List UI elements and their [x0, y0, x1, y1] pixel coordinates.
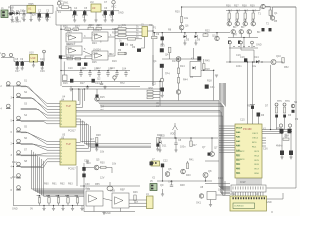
resistor R21 left — [152, 36, 158, 38]
diode D14 — [256, 60, 259, 63]
crystal Y2 — [107, 186, 113, 191]
resistor R56 — [283, 138, 289, 140]
svg-text:100n: 100n — [180, 146, 186, 149]
svg-text:RC1: RC1 — [252, 147, 257, 149]
wire regulator output — [30, 12, 32, 15]
test point TP6 — [283, 103, 286, 106]
capacitor C27 — [92, 79, 95, 83]
resistor R7 — [118, 31, 126, 34]
test point antenna — [173, 126, 178, 131]
capacitor C26 — [70, 79, 73, 83]
svg-text:RN1: RN1 — [149, 87, 155, 90]
svg-text:104: 104 — [94, 68, 99, 71]
wire fuse to rail — [59, 6, 62, 8]
transistor Q2 — [235, 22, 239, 26]
wire G bottom rail — [84, 211, 135, 213]
wire H rail — [226, 61, 271, 63]
svg-text:TLP: TLP — [66, 104, 71, 108]
wire cap row rail — [61, 70, 130, 72]
svg-text:C15: C15 — [240, 119, 245, 122]
op-amp U2A — [66, 33, 82, 42]
test point TP8 — [288, 124, 291, 127]
diode D7 — [238, 41, 241, 44]
capacitor C33 — [174, 143, 177, 144]
diode D1 — [12, 12, 15, 15]
transistor Q18 — [203, 173, 208, 178]
resistor R63 bottom — [67, 196, 69, 198]
header JP1 — [231, 185, 266, 192]
transistor Q17 — [181, 169, 186, 174]
optocoupler U5 — [60, 139, 76, 165]
svg-text:100n: 100n — [236, 65, 242, 68]
svg-text:R61: R61 — [52, 183, 57, 186]
transistor Q19 — [199, 194, 203, 198]
svg-text:R27: R27 — [192, 144, 197, 147]
svg-text:GND: GND — [266, 201, 272, 204]
connector J6 — [230, 196, 267, 211]
svg-text:D11: D11 — [162, 145, 167, 148]
svg-text:R16: R16 — [63, 82, 68, 85]
wire bundle verticals from top — [219, 83, 221, 101]
svg-text:Q10: Q10 — [276, 55, 281, 58]
ground C53 — [290, 155, 292, 157]
push button row S1 — [7, 82, 11, 86]
wire U4 pin 8 down — [76, 125, 151, 146]
capacitor C52 — [280, 151, 284, 156]
resistor R35 — [269, 10, 271, 16]
wire left bus op-amp section — [60, 25, 62, 86]
ground PSU-B 4 — [104, 15, 106, 20]
resistor R8B — [128, 38, 136, 41]
svg-text:4k7: 4k7 — [236, 10, 241, 13]
svg-text:MCLR: MCLR — [236, 128, 243, 130]
svg-text:VCC: VCC — [111, 6, 116, 9]
wire RN1 to bus — [153, 90, 160, 92]
test point TP1 — [57, 2, 60, 5]
connector J1 power input — [1, 10, 8, 18]
transistor Q8 top right — [261, 4, 265, 8]
ground bottom 0 — [43, 206, 45, 209]
svg-text:BC: BC — [241, 26, 245, 29]
LED D11 — [159, 141, 162, 144]
capacitor C5 — [83, 11, 86, 15]
resistor R6 — [118, 27, 126, 30]
svg-text:U3: U3 — [92, 6, 96, 10]
wire bundle pin stubs to MCU — [219, 125, 235, 127]
svg-text:10u: 10u — [102, 14, 107, 17]
wire bottom rail — [13, 205, 84, 207]
capacitor C21 row — [89, 71, 91, 73]
wire right vertical PSU-A — [52, 5, 54, 13]
ground PSU-A 4 — [30, 16, 32, 20]
resistor R11 mid — [75, 58, 81, 60]
svg-text:R49: R49 — [218, 177, 223, 180]
connector dashes — [233, 46, 255, 48]
op-amp U2D — [92, 51, 108, 60]
resistor R62 bottom — [58, 196, 60, 198]
svg-text:R20: R20 — [175, 11, 180, 14]
wire MCU bottom pins — [236, 178, 238, 185]
wire E row — [201, 69, 214, 71]
wire fan verticals to bottom — [32, 150, 85, 189]
fuse F1 — [62, 6, 69, 9]
resistor R31 base — [236, 13, 238, 19]
wire MCU right pins — [262, 137, 266, 139]
wire U4 pin 3 long — [76, 110, 230, 192]
op-amp U2C — [66, 46, 82, 55]
wire H2 right vertical — [224, 181, 226, 195]
ground PSU-B 1 — [74, 15, 76, 20]
wire H2 — [162, 167, 164, 181]
svg-text:D13: D13 — [12, 176, 17, 179]
diode D5 — [184, 35, 187, 38]
svg-text:PC817: PC817 — [68, 130, 76, 133]
svg-text:4k7: 4k7 — [244, 10, 249, 13]
svg-text:D14: D14 — [254, 56, 259, 59]
push button row S9 — [17, 174, 21, 178]
op-amp U2B — [92, 32, 108, 41]
svg-text:R30: R30 — [100, 162, 105, 165]
wire crystal verticals — [281, 134, 283, 151]
svg-text:IC1D: IC1D — [92, 53, 98, 56]
transistor Q1 — [227, 22, 231, 26]
transistor Q10 — [179, 25, 184, 30]
push button row S6 — [17, 139, 21, 143]
capacitor C32 — [160, 88, 164, 92]
wire main rail PSU-B — [57, 10, 119, 12]
test point TP2 — [112, 1, 115, 4]
svg-text:100n: 100n — [82, 14, 88, 17]
wire U4 pin 5 long — [76, 116, 230, 195]
svg-text:U1: U1 — [28, 7, 32, 11]
capacitor C46 — [244, 58, 247, 62]
push button row S5 — [17, 128, 21, 132]
wire junction verticals to opto — [71, 89, 73, 101]
wire G left vertical — [83, 163, 85, 186]
svg-text:R11: R11 — [70, 55, 75, 58]
svg-text:R23: R23 — [92, 42, 97, 45]
resistor R9 — [118, 52, 126, 55]
svg-text:U10: U10 — [31, 56, 36, 60]
svg-text:IC2: IC2 — [152, 83, 157, 86]
ground C52 — [281, 155, 283, 157]
capacitor C51 — [288, 129, 292, 134]
ground E small — [215, 75, 218, 77]
capacitor C3 — [46, 14, 49, 18]
svg-text:470u: 470u — [72, 14, 78, 17]
wire left E column — [161, 68, 163, 95]
resistor R32 base — [244, 13, 246, 19]
capacitor C25 row — [125, 71, 127, 73]
svg-text:PC817: PC817 — [68, 168, 76, 171]
wire G left vertical 2 — [76, 166, 78, 186]
resistor R24 — [177, 78, 179, 84]
transistor emitter stub 1 — [229, 41, 232, 44]
ground R28 — [96, 147, 98, 149]
wire U4 aux down 3 — [91, 126, 152, 147]
connector J4 — [147, 196, 154, 209]
svg-text:GND: GND — [105, 212, 111, 215]
svg-text:R25: R25 — [92, 61, 97, 64]
svg-text:104: 104 — [122, 68, 127, 71]
svg-text:REF: REF — [120, 189, 125, 192]
svg-text:GND: GND — [12, 208, 18, 211]
svg-text:C25: C25 — [84, 160, 89, 163]
wire H2 rail — [157, 180, 212, 182]
svg-text:4k7: 4k7 — [90, 138, 95, 141]
ground H2 — [162, 189, 164, 194]
resistor R30 base — [228, 13, 230, 19]
capacitor C44 — [170, 185, 173, 186]
capacitor C19 — [41, 62, 44, 66]
resistor R28 pullup — [96, 138, 98, 144]
svg-text:out: out — [100, 109, 104, 112]
resistor R33 base — [252, 13, 254, 19]
capacitor C14 — [78, 63, 81, 66]
wire right vertical inner — [270, 65, 272, 130]
svg-text:0V: 0V — [30, 208, 33, 211]
svg-text:R22: R22 — [205, 30, 210, 33]
wire vertical from top rail — [10, 5, 12, 13]
capacitor C10 — [161, 37, 164, 41]
svg-text:R22: R22 — [66, 43, 71, 46]
svg-text:TP2: TP2 — [120, 82, 125, 85]
svg-text:ICSP: ICSP — [240, 181, 246, 184]
capacitor C22 row — [98, 71, 100, 73]
wire left column bus — [12, 86, 14, 206]
capacitor C30B — [160, 64, 164, 68]
wire bundle lower horizontals — [205, 160, 219, 162]
wire U4 right pin 1 up — [76, 89, 80, 105]
wire U2B out — [108, 36, 115, 38]
capacitor C2 — [38, 14, 41, 18]
wire vertical x160 — [159, 81, 161, 106]
transistor Q6 — [239, 30, 243, 34]
wire cluster top rail — [226, 9, 260, 11]
svg-text:OSC1: OSC1 — [252, 133, 259, 135]
svg-text:IC1B: IC1B — [92, 34, 98, 37]
svg-text:R44: R44 — [183, 79, 188, 82]
svg-text:U6B: U6B — [110, 190, 115, 193]
wire lower rail 2 — [62, 85, 140, 87]
ground bottom 3 — [72, 206, 74, 209]
svg-text:R17: R17 — [80, 82, 85, 85]
ground lower rail — [87, 85, 89, 88]
capacitor C24 row — [116, 71, 118, 73]
svg-text:C31: C31 — [210, 86, 215, 89]
svg-text:C30: C30 — [85, 183, 90, 186]
resistor R10 mid — [67, 58, 73, 60]
svg-text:C44: C44 — [168, 181, 173, 184]
svg-text:R28: R28 — [96, 134, 101, 137]
push button row S4 — [17, 116, 21, 120]
svg-text:R46: R46 — [133, 191, 138, 194]
svg-text:RC0: RC0 — [252, 142, 257, 144]
ground D section 2 — [195, 40, 197, 44]
ground PSU-A 1 — [11, 16, 13, 20]
resistor R60 bottom — [39, 196, 41, 198]
ground J7 — [86, 161, 89, 163]
svg-text:100n: 100n — [45, 16, 51, 19]
ground U8 — [210, 200, 212, 205]
wire array lower rail — [229, 47, 258, 49]
wire PSU-C rail — [13, 58, 15, 62]
diode D2 — [16, 12, 19, 15]
resistor R23 — [177, 68, 179, 74]
resistor R64 bottom — [77, 196, 79, 198]
ground PSU-A 6 — [46, 16, 48, 20]
ground C10 — [161, 40, 163, 44]
diode D8 — [120, 43, 124, 46]
wire right edge bottom — [267, 187, 297, 189]
push button row S10 — [17, 186, 21, 190]
svg-text:RC3: RC3 — [240, 159, 245, 161]
svg-text:R45: R45 — [205, 60, 210, 63]
svg-text:R37: R37 — [234, 5, 239, 8]
svg-text:IC1C: IC1C — [66, 48, 72, 51]
resistor R22 — [203, 34, 208, 37]
svg-text:C22: C22 — [163, 160, 168, 163]
svg-text:CONN 20: CONN 20 — [234, 206, 244, 208]
resistor R52 — [282, 58, 284, 64]
wire opamp top rail — [61, 28, 120, 30]
svg-text:RC7: RC7 — [255, 169, 260, 171]
svg-text:R60: R60 — [44, 183, 49, 186]
svg-text:4MHz: 4MHz — [276, 145, 283, 148]
svg-text:an1: an1 — [118, 25, 123, 28]
resistor network RN1 — [147, 90, 153, 92]
svg-text:12V: 12V — [100, 177, 105, 180]
wire right edge vertical — [295, 7, 297, 188]
svg-text:TP1: TP1 — [58, 0, 63, 3]
svg-text:R48: R48 — [180, 184, 185, 187]
svg-text:PIC16F: PIC16F — [243, 127, 252, 131]
svg-text:R32: R32 — [112, 32, 117, 35]
connector J7 small — [151, 161, 160, 166]
wire fan to U5 — [21, 132, 57, 142]
resistor R3 — [88, 27, 94, 29]
svg-text:IC1A: IC1A — [66, 35, 72, 38]
ground bottom 1 — [53, 206, 55, 209]
svg-text:D12: D12 — [12, 161, 17, 164]
svg-text:TLP: TLP — [66, 142, 71, 146]
connector J6 pin ticks — [233, 197, 266, 199]
wire G rail — [80, 185, 140, 187]
regulator U3 78L05 — [91, 4, 101, 12]
svg-text:R52: R52 — [284, 66, 289, 69]
wire E vertical — [152, 55, 154, 86]
resistor R26 — [203, 64, 205, 70]
test point TP3 — [113, 76, 116, 79]
resistor R27 — [190, 141, 192, 147]
capacitor C21 stray — [59, 55, 62, 58]
capacitor C53 — [289, 151, 293, 156]
resistor R8 — [118, 34, 126, 37]
comparator U7 — [112, 193, 129, 208]
svg-text:LM324: LM324 — [93, 29, 101, 32]
ground bottom 4 — [81, 206, 83, 209]
sensor S2 — [9, 53, 12, 56]
svg-text:104: 104 — [108, 68, 113, 71]
svg-text:22p: 22p — [276, 127, 281, 130]
diode D6 — [228, 41, 231, 44]
svg-text:BC: BC — [257, 31, 261, 34]
svg-text:PWR: PWR — [8, 7, 14, 10]
ground PSU-A 5 — [38, 16, 40, 20]
capacitor C41 — [82, 174, 85, 178]
svg-text:LM: LM — [90, 1, 93, 4]
svg-text:RC4: RC4 — [255, 155, 260, 157]
ground D section — [184, 40, 186, 44]
capacitor C30 — [160, 48, 164, 52]
svg-text:R36: R36 — [226, 5, 231, 8]
svg-text:R29: R29 — [157, 134, 162, 137]
capacitor C50 — [280, 129, 284, 134]
wire U4 right pin 2 up — [76, 89, 83, 107]
regulator U1 7805 — [27, 6, 36, 13]
wire main rail PSU-A — [8, 12, 53, 14]
svg-text:R18: R18 — [207, 80, 212, 83]
svg-text:OSC2: OSC2 — [252, 138, 259, 140]
capacitor C20 row — [80, 71, 82, 73]
capacitor C28 — [100, 83, 103, 84]
svg-text:104: 104 — [109, 14, 114, 17]
capacitor C43 — [150, 162, 153, 166]
ground PSU-B 2 — [84, 15, 86, 20]
capacitor C40 — [82, 167, 85, 171]
wire top-right vertical feed — [152, 25, 154, 86]
svg-text:LM324: LM324 — [93, 48, 101, 51]
resistor R29 pullup — [157, 138, 159, 144]
ground R29 — [157, 147, 159, 149]
optocoupler U4 — [60, 101, 76, 127]
diode D5B — [195, 35, 198, 38]
fuse F2 — [9, 12, 12, 15]
svg-text:R15: R15 — [100, 96, 105, 99]
svg-text:R38: R38 — [242, 5, 247, 8]
wire U5 right pin stubs — [76, 142, 81, 144]
svg-text:R29: R29 — [97, 24, 102, 27]
wire bundle horizontal group — [97, 101, 230, 187]
diode D10 — [193, 67, 196, 70]
svg-text:20M: 20M — [284, 135, 289, 138]
svg-text:C19: C19 — [40, 70, 45, 73]
capacitor C4 — [73, 11, 76, 15]
capacitor C15 — [84, 63, 87, 66]
wire sensor rail — [1, 57, 14, 59]
transistor emitter stub 3 — [251, 41, 254, 44]
capacitor C23 row — [107, 71, 109, 73]
ground TP3 — [104, 86, 106, 88]
wire header to connector pins — [232, 192, 234, 196]
push button row S7 — [17, 151, 21, 155]
svg-text:C10: C10 — [68, 67, 73, 70]
ground PSU-A 3 — [23, 16, 25, 20]
svg-text:BC: BC — [233, 26, 237, 29]
wire J6 right — [267, 193, 284, 199]
svg-text:R13: R13 — [172, 60, 177, 63]
ground PSU-B 5 — [111, 15, 113, 20]
svg-text:C16: C16 — [240, 56, 245, 59]
capacitor C13 right — [269, 28, 272, 31]
wire U2D out — [108, 44, 115, 56]
svg-text:RC2: RC2 — [240, 151, 245, 153]
ground E column — [161, 95, 164, 97]
svg-text:SW1: SW1 — [63, 2, 69, 5]
svg-text:R39: R39 — [250, 5, 255, 8]
svg-text:7805: 7805 — [28, 3, 34, 6]
wire Q10 emitter — [181, 30, 183, 33]
